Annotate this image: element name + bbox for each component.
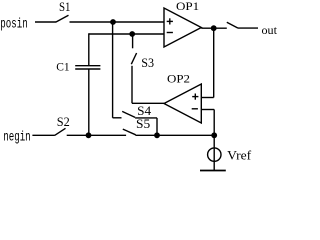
svg-text:S5: S5 xyxy=(136,116,150,131)
svg-text:out: out xyxy=(262,25,278,37)
svg-text:S1: S1 xyxy=(59,0,71,14)
svg-text:C1: C1 xyxy=(56,61,70,73)
svg-text:OP1: OP1 xyxy=(176,1,199,13)
svg-text:S3: S3 xyxy=(141,55,154,70)
svg-text:S2: S2 xyxy=(57,114,70,129)
svg-text:OP2: OP2 xyxy=(167,74,190,86)
svg-text:negin: negin xyxy=(3,130,31,146)
svg-text:posin: posin xyxy=(0,17,28,33)
svg-text:Vref: Vref xyxy=(227,148,252,163)
